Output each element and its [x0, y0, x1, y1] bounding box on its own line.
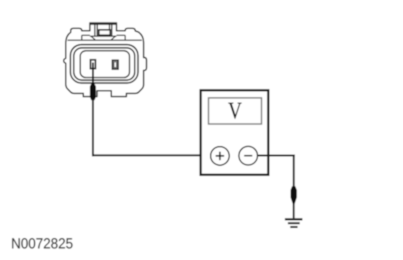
latch ramp diagonals — [91, 36, 115, 40]
wire down to ground probe — [293, 155, 295, 189]
terminal 2 (right pin) — [113, 60, 119, 69]
probe body (left test probe) — [90, 83, 96, 101]
connector body top edge — [68, 39, 142, 41]
probe body (ground test probe) — [291, 186, 297, 204]
voltmeter display — [209, 98, 262, 124]
voltmeter V label — [228, 103, 241, 119]
wire to voltmeter positive — [92, 154, 211, 156]
latch top thick edge — [90, 23, 117, 25]
latch bottom edge — [90, 35, 117, 37]
figure label N0072825 — [12, 238, 72, 248]
probe tip into terminal 1 — [92, 63, 94, 86]
wire probe to ground — [293, 204, 295, 218]
connector shroud outer — [70, 45, 138, 83]
terminal + — [211, 147, 230, 166]
terminal - — [239, 146, 258, 165]
connector C1 body outline — [64, 23, 147, 97]
latch inner vertical ribs — [95, 24, 112, 36]
voltmeter V1 box — [201, 90, 269, 175]
ground symbol — [285, 218, 303, 220]
wire from probe down — [92, 99, 94, 156]
wire from negative terminal — [257, 155, 294, 157]
latch wing lines — [82, 35, 125, 40]
terminal 1 (left pin) — [91, 60, 96, 69]
connector cavity — [80, 51, 129, 78]
latch center tab — [99, 30, 110, 35]
connector shroud inner — [74, 48, 135, 80]
terminal 2 inner slot — [114, 62, 117, 68]
